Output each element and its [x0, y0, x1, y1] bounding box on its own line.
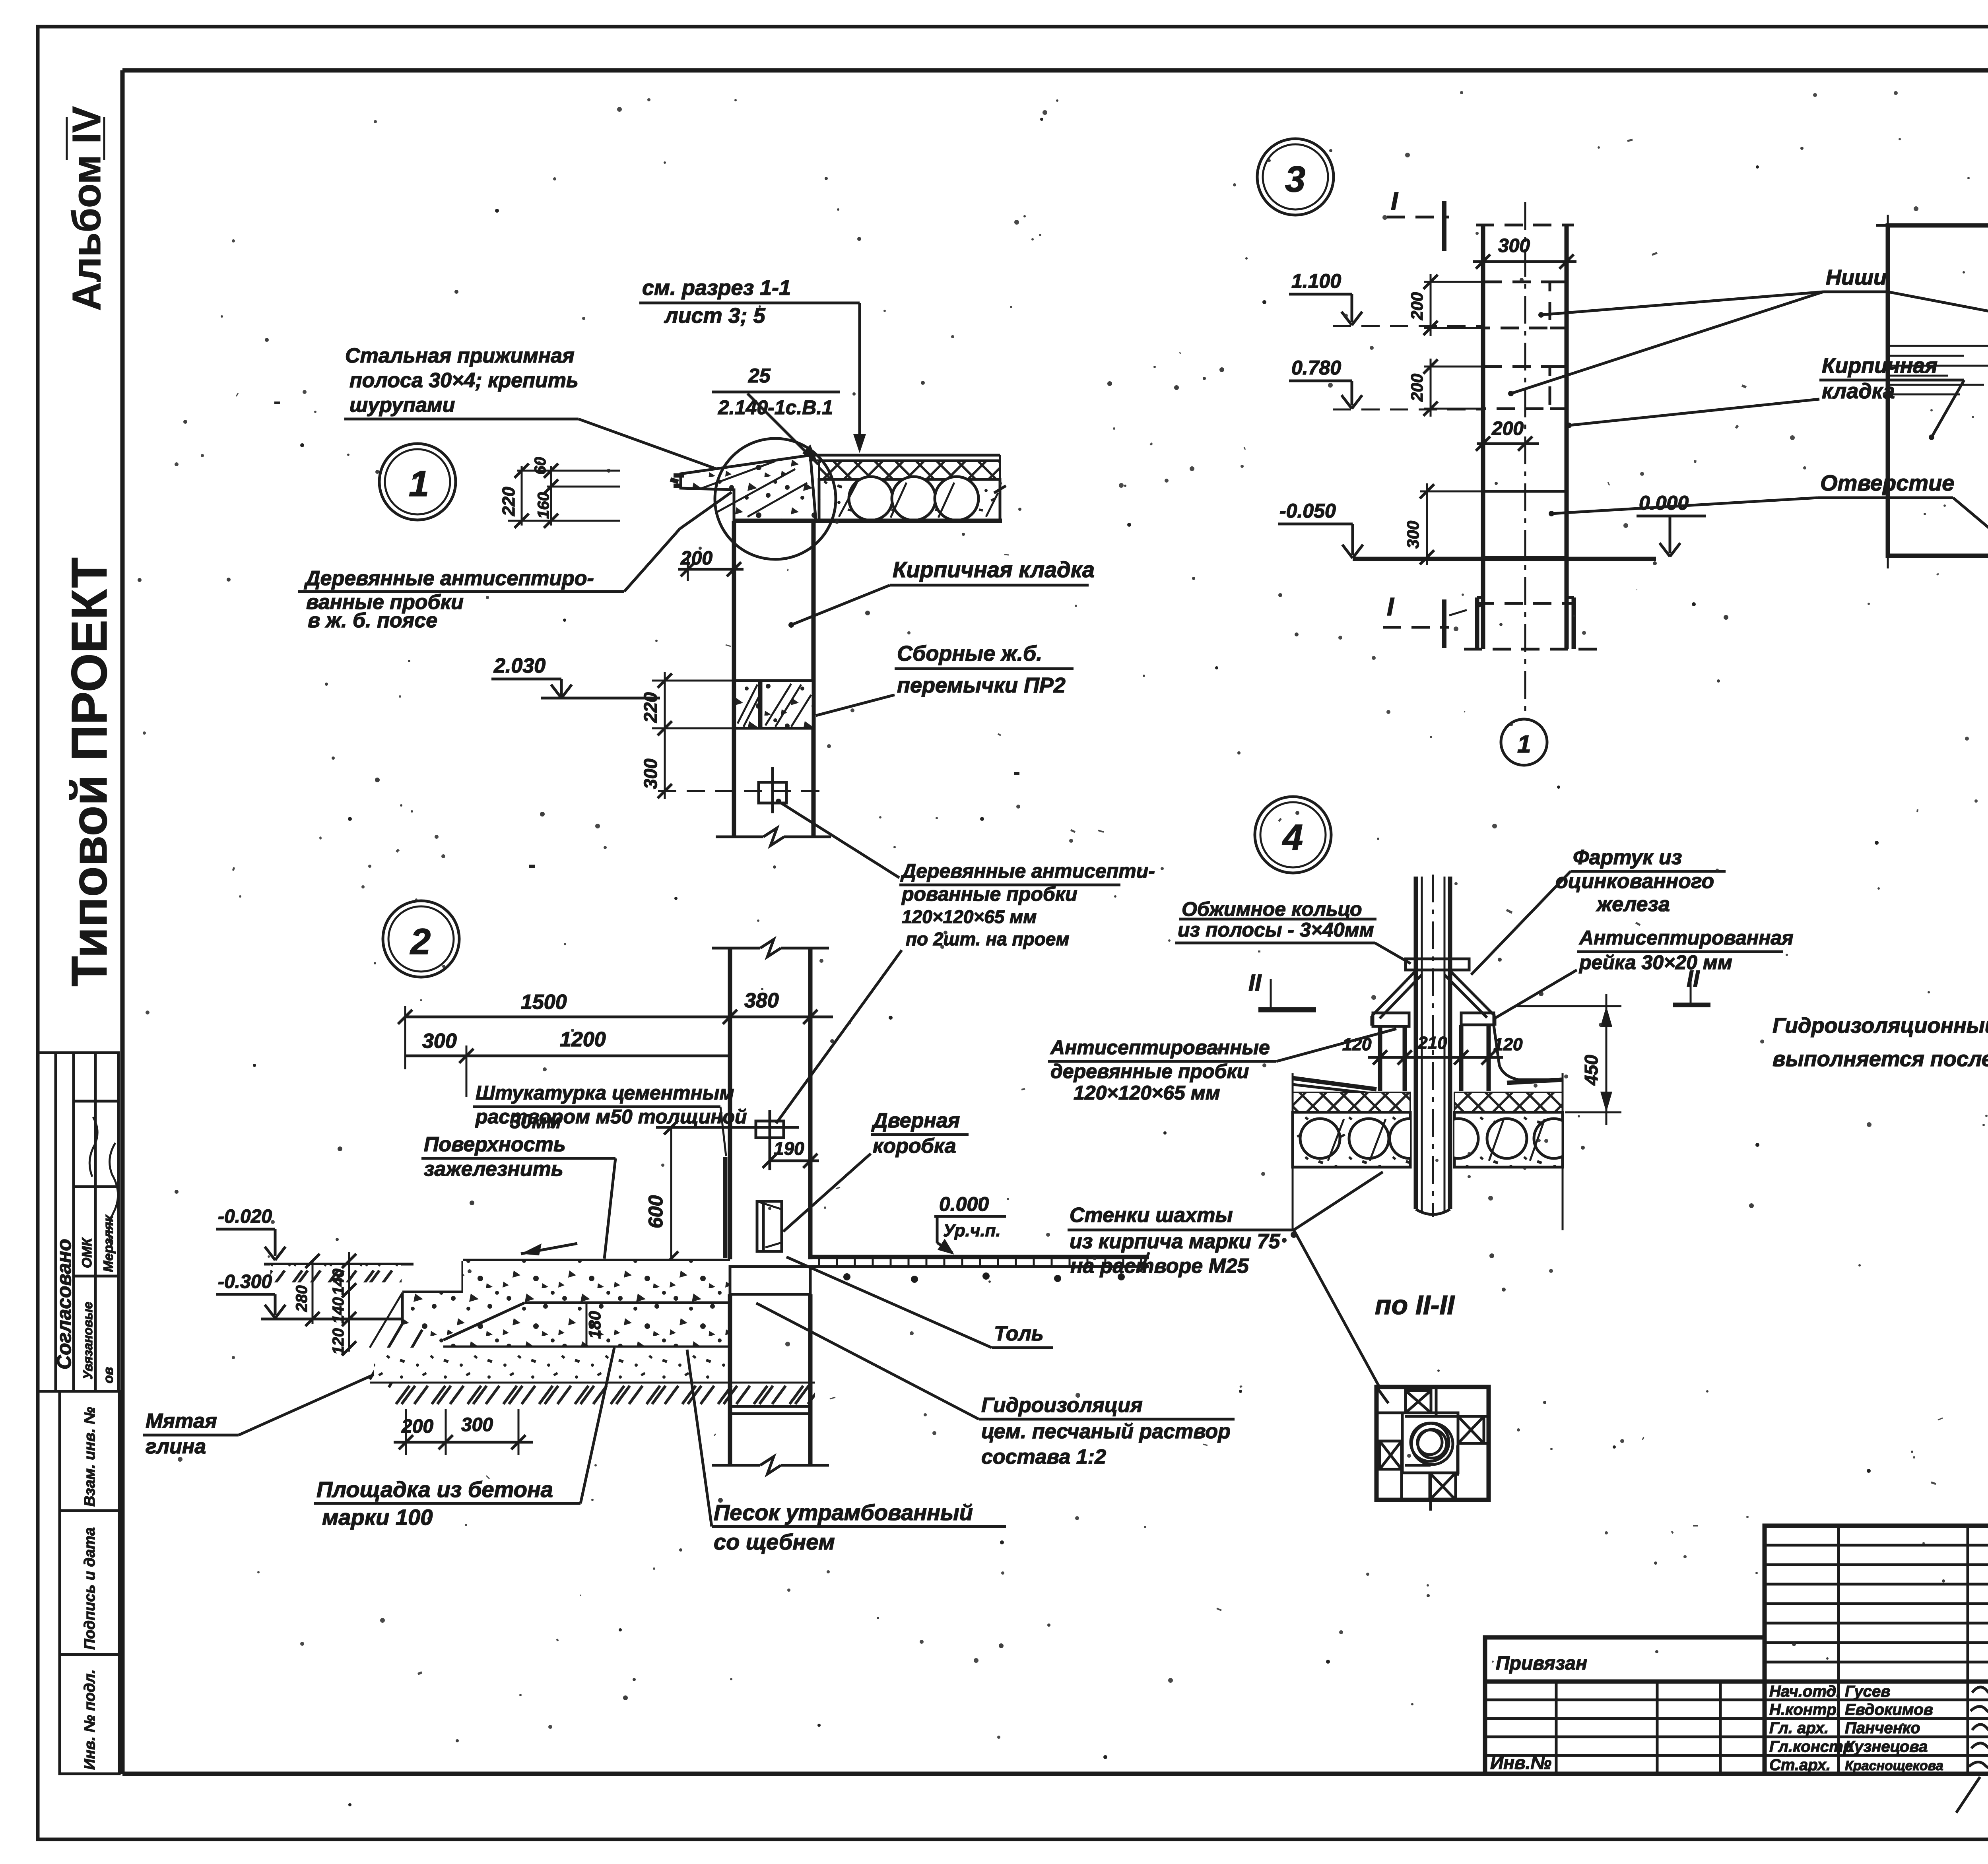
zero/ground line	[1353, 557, 1656, 561]
pipe circle	[1411, 1423, 1449, 1461]
inner frame bottom	[122, 1772, 1988, 1776]
svg-text:см. разрез 1-1: см. разрез 1-1	[642, 276, 791, 300]
svg-text:160: 160	[535, 492, 552, 519]
lintel dims 220 / 300	[652, 680, 735, 682]
svg-text:380: 380	[744, 989, 779, 1012]
svg-text:210: 210	[1417, 1033, 1447, 1053]
svg-text:Мерзляк: Мерзляк	[101, 1214, 116, 1272]
svg-text:Гидроизоляционный ковер кровли: Гидроизоляционный ковер кровли	[1773, 1014, 1988, 1038]
svg-text:4: 4	[1282, 817, 1303, 858]
svg-text:Привязан: Привязан	[1496, 1653, 1587, 1674]
svg-text:60: 60	[532, 457, 549, 475]
left extension (privyazan)	[1485, 1637, 1765, 1774]
right apron skirt to roof	[1494, 1026, 1562, 1080]
left shaft upstand	[1373, 1013, 1409, 1026]
floor right of wall: bead row	[810, 1255, 1149, 1259]
svg-text:Обжимное кольцо: Обжимное кольцо	[1182, 898, 1362, 920]
column body	[1481, 225, 1485, 649]
clay wedge	[370, 1324, 402, 1379]
svg-text:шурупами: шурупами	[349, 394, 455, 417]
svg-text:200: 200	[1408, 292, 1426, 320]
svg-text:рейка 30×20 мм: рейка 30×20 мм	[1578, 951, 1732, 974]
svg-text:600: 600	[645, 1195, 667, 1228]
svg-text:марки 100: марки 100	[322, 1505, 433, 1530]
svg-text:0.000: 0.000	[939, 1193, 989, 1215]
svg-text:Деревянные антисептиро-: Деревянные антисептиро-	[304, 567, 594, 590]
sand layer below	[374, 1348, 730, 1383]
svg-text:Гусев: Гусев	[1845, 1683, 1890, 1700]
internal joint lines	[1435, 1389, 1438, 1416]
svg-text:300: 300	[1498, 235, 1530, 256]
svg-text:200: 200	[680, 548, 712, 569]
svg-text:Гл. арх.: Гл. арх.	[1769, 1719, 1829, 1737]
leader down to detail 2 plug	[776, 950, 902, 1123]
dim 200 at wall top	[687, 555, 689, 581]
svg-text:Антисептированные: Антисептированные	[1050, 1036, 1270, 1059]
svg-text:Кирпичная кладка: Кирпичная кладка	[893, 557, 1095, 582]
svg-text:300: 300	[461, 1414, 493, 1435]
svg-text:Гидроизоляция: Гидроизоляция	[981, 1394, 1143, 1417]
svg-text:30мм: 30мм	[510, 1110, 561, 1133]
svg-text:цем. песчаный раствор: цем. песчаный раствор	[981, 1420, 1231, 1443]
inner pipe hole	[1402, 1413, 1458, 1473]
wall face square	[1876, 224, 1988, 227]
lintel blocks	[735, 681, 813, 728]
svg-text:Штукатурка цементным: Штукатурка цементным	[476, 1082, 734, 1104]
svg-text:Гл.констр: Гл.констр	[1769, 1738, 1853, 1755]
svg-text:120: 120	[330, 1328, 347, 1355]
svg-text:Стальная прижимная: Стальная прижимная	[345, 344, 575, 367]
svg-text:0.780: 0.780	[1291, 357, 1341, 379]
svg-text:кладка: кладка	[1822, 379, 1895, 403]
svg-text:глина: глина	[146, 1435, 206, 1458]
svg-text:450: 450	[1581, 1055, 1602, 1086]
svg-text:Сборные ж.б.: Сборные ж.б.	[897, 642, 1042, 665]
detail marker circle 3	[1257, 139, 1334, 215]
svg-text:оцинкованного: оцинкованного	[1555, 870, 1714, 893]
detail marker circle 4	[1255, 797, 1331, 873]
slab: monolithic wedge	[681, 455, 816, 521]
leader tail inside	[1376, 1387, 1388, 1403]
pipe circle	[1411, 1423, 1453, 1464]
svg-text:-0.050: -0.050	[1279, 500, 1336, 522]
extension line below left slab	[1292, 1073, 1294, 1230]
svg-text:300: 300	[1404, 521, 1422, 549]
leader to slab	[843, 302, 860, 305]
plaster strip on wall face	[723, 1157, 728, 1258]
revision grid	[1765, 1526, 1988, 1774]
niche 1 (dashed)	[1484, 282, 1550, 328]
svg-text:Евдокимов: Евдокимов	[1845, 1701, 1933, 1719]
niche 2 (dashed)	[1484, 367, 1550, 409]
svg-text:Н.контр.: Н.контр.	[1769, 1701, 1841, 1719]
svg-text:Краснощекова: Краснощекова	[1845, 1758, 1943, 1773]
vertical extension lines	[1887, 215, 1889, 568]
svg-text:Толь: Толь	[994, 1322, 1044, 1345]
detail marker circle 2	[383, 901, 459, 977]
svg-text:по 2шт. на проем: по 2шт. на проем	[906, 929, 1069, 949]
svg-text:220: 220	[499, 487, 518, 516]
svg-text:Ст.арх.: Ст.арх.	[1769, 1756, 1831, 1774]
base widening	[1475, 597, 1479, 649]
niche dims 200	[1424, 281, 1484, 283]
svg-text:из полосы - 3×40мм: из полосы - 3×40мм	[1178, 919, 1374, 941]
svg-text:I: I	[1391, 187, 1398, 215]
svg-text:Альбом IV: Альбом IV	[64, 106, 109, 311]
ground surface lines at left	[264, 1263, 414, 1266]
leader steel strip	[579, 419, 747, 480]
svg-text:рованные пробки: рованные пробки	[901, 883, 1077, 905]
svg-text:Деревянные антисепти-: Деревянные антисепти-	[900, 860, 1155, 882]
svg-text:-0.300: -0.300	[218, 1271, 272, 1292]
svg-text:полоса 30×4; крепить: полоса 30×4; крепить	[349, 369, 579, 392]
pipe	[1414, 877, 1418, 1209]
svg-text:25: 25	[748, 365, 771, 387]
svg-text:Песок утрамбованный: Песок утрамбованный	[714, 1500, 973, 1525]
svg-text:на растворе М25: на растворе М25	[1070, 1255, 1249, 1278]
svg-text:200: 200	[401, 1416, 433, 1437]
wall top break	[712, 947, 760, 950]
svg-text:300: 300	[422, 1030, 457, 1053]
brick cells with X	[1380, 1391, 1484, 1500]
dims 200 300 below	[405, 1409, 407, 1455]
shaft plan	[1376, 1387, 1489, 1500]
wall	[732, 521, 736, 837]
svg-text:Инв.№: Инв.№	[1490, 1752, 1551, 1773]
svg-text:состава 1:2: состава 1:2	[981, 1445, 1106, 1468]
slab thickness dims 220 / 160 / 60	[517, 470, 620, 472]
bottom marker circle 1	[1501, 719, 1547, 765]
dim 600	[670, 1127, 672, 1259]
svg-text:лист 3; 5: лист 3; 5	[664, 304, 766, 328]
svg-text:ов: ов	[101, 1367, 116, 1383]
slab right end break	[999, 455, 1001, 521]
svg-text:Мятая: Мятая	[146, 1410, 217, 1433]
svg-text:Панченко: Панченко	[1845, 1719, 1920, 1737]
hollow core slab	[819, 479, 1000, 521]
svg-text:Типовой ПРОЕКТ: Типовой ПРОЕКТ	[61, 557, 117, 987]
svg-text:Нач.отд.: Нач.отд.	[1769, 1683, 1840, 1700]
plugs axis line	[658, 790, 826, 792]
svg-text:140: 140	[330, 1269, 347, 1295]
signatures squiggles	[1972, 1683, 1988, 1694]
svg-text:Взам. инв. №: Взам. инв. №	[82, 1407, 98, 1507]
svg-text:II: II	[1248, 970, 1262, 996]
svg-text:200: 200	[1491, 418, 1524, 439]
svg-text:Кузнецова: Кузнецова	[1845, 1738, 1928, 1755]
ground hatch	[394, 1383, 815, 1407]
svg-text:190: 190	[774, 1138, 804, 1159]
svg-text:Дверная: Дверная	[871, 1109, 960, 1132]
small dim stack	[312, 1261, 314, 1324]
axis	[1524, 202, 1526, 719]
svg-text:Ниши: Ниши	[1826, 266, 1887, 289]
right shaft upstand	[1461, 1013, 1494, 1025]
svg-text:1500: 1500	[521, 991, 567, 1014]
svg-text:по II-II: по II-II	[1375, 1290, 1455, 1320]
svg-text:перемычки ПР2: перемычки ПР2	[897, 673, 1066, 697]
wall below floor	[728, 1294, 732, 1465]
svg-text:Ур.ч.п.: Ур.ч.п.	[943, 1221, 1001, 1240]
roofing lines	[1293, 1078, 1376, 1089]
detail circle around junction	[715, 438, 836, 559]
roof screed lines above slab	[810, 454, 1000, 457]
svg-text:2: 2	[410, 921, 431, 962]
svg-text:3: 3	[1285, 159, 1305, 200]
svg-text:1: 1	[1517, 731, 1531, 758]
slope arrow on pad	[521, 1243, 577, 1254]
svg-text:2.140-1с.В.1: 2.140-1с.В.1	[718, 396, 833, 419]
insulation bands	[1293, 1092, 1410, 1112]
svg-text:выполняется после монтажа труб: выполняется после монтажа трубопроводов	[1773, 1047, 1988, 1071]
svg-text:Антисептированная: Антисептированная	[1578, 927, 1794, 949]
svg-text:120: 120	[1493, 1035, 1523, 1054]
wooden plug	[759, 782, 786, 803]
plug in wall	[756, 1121, 784, 1138]
svg-text:-0.020: -0.020	[218, 1206, 272, 1227]
svg-text:коробка: коробка	[873, 1135, 956, 1158]
svg-text:1.100: 1.100	[1291, 270, 1341, 292]
wall above floor	[728, 948, 732, 1259]
brick course lines	[1886, 345, 1988, 347]
svg-text:Площадка из бетона: Площадка из бетона	[316, 1477, 553, 1502]
svg-text:железа: железа	[1596, 893, 1670, 916]
apron (fartuk)	[1372, 971, 1416, 1016]
dim 300 opening	[1420, 491, 1483, 493]
svg-text:0.000: 0.000	[1639, 492, 1689, 514]
wall bottom break	[716, 836, 763, 838]
svg-text:Подпись и дата: Подпись и дата	[82, 1527, 98, 1650]
svg-text:со щебнем: со щебнем	[714, 1529, 835, 1554]
svg-text:из кирпича марки 75: из кирпича марки 75	[1070, 1230, 1280, 1253]
svg-text:120×120×65 мм: 120×120×65 мм	[1074, 1082, 1220, 1104]
svg-text:Стенки шахты: Стенки шахты	[1070, 1204, 1233, 1227]
lower stamp boxes	[60, 1391, 119, 1774]
detail marker circle 1	[379, 444, 456, 520]
svg-text:в ж. б. поясе: в ж. б. поясе	[308, 609, 437, 632]
insulation cross hatch band	[819, 461, 1000, 479]
pad top surfaces	[463, 1259, 730, 1263]
svg-text:140: 140	[330, 1297, 347, 1324]
svg-text:I: I	[1387, 592, 1394, 621]
svg-text:180: 180	[585, 1311, 604, 1339]
door frame	[757, 1201, 782, 1251]
svg-text:Фартук из: Фартук из	[1573, 846, 1682, 869]
svg-text:ОМК: ОМК	[80, 1237, 95, 1268]
under-door concrete	[730, 1267, 810, 1294]
svg-text:зажелезнить: зажелезнить	[424, 1158, 563, 1181]
svg-text:120×120×65 мм: 120×120×65 мм	[902, 906, 1037, 927]
pad body	[402, 1261, 730, 1347]
top band bottom line / inner frame top	[122, 68, 1988, 73]
opening lines	[1483, 490, 1567, 493]
svg-text:300: 300	[640, 758, 661, 789]
svg-text:деревянные пробки: деревянные пробки	[1050, 1060, 1249, 1082]
svg-text:Согласовано: Согласовано	[53, 1239, 75, 1369]
steel strip at tip	[674, 473, 684, 478]
svg-text:1200: 1200	[560, 1028, 606, 1051]
dim 180 inside pad	[586, 1303, 588, 1347]
svg-text:Увязановые: Увязановые	[81, 1302, 95, 1379]
svg-text:280: 280	[293, 1285, 311, 1312]
dim 450	[1517, 1005, 1621, 1007]
slab bottom	[734, 519, 1002, 523]
svg-text:Инв. № подл.: Инв. № подл.	[82, 1669, 98, 1770]
svg-text:1: 1	[409, 464, 429, 504]
soglasovano table	[38, 1053, 118, 1391]
leader to plugs text	[779, 801, 899, 878]
svg-text:200: 200	[1408, 374, 1426, 402]
svg-text:2.030: 2.030	[493, 654, 546, 677]
svg-text:Поверхность: Поверхность	[424, 1133, 566, 1156]
internal joint lines	[1430, 1387, 1433, 1391]
clamp ring	[1406, 959, 1469, 970]
inner frame left	[120, 70, 125, 1774]
IV overbar/underbar	[66, 117, 68, 160]
